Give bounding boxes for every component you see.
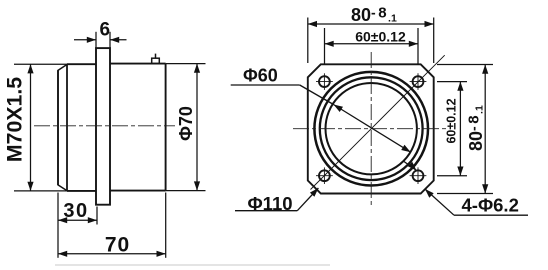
svg-text:70: 70 bbox=[105, 234, 130, 257]
outer circle bbox=[314, 72, 428, 186]
dimension 30 bbox=[58, 193, 97, 258]
centerline left view bbox=[34, 125, 175, 127]
top dimension 80-0.1 bbox=[308, 5, 434, 64]
svg-text:Φ70: Φ70 bbox=[176, 106, 196, 141]
svg-text:6: 6 bbox=[100, 19, 111, 40]
svg-text:80-8.1: 80-8.1 bbox=[466, 105, 487, 151]
svg-text:60±0.12: 60±0.12 bbox=[355, 29, 406, 45]
svg-text:4-Φ6.2: 4-Φ6.2 bbox=[462, 195, 519, 216]
svg-text:60±0.12: 60±0.12 bbox=[445, 98, 459, 143]
bolt hole bottom-right phi6.2 bbox=[410, 167, 427, 184]
middle circle bbox=[320, 77, 423, 180]
dimension phi70 bbox=[166, 64, 206, 191]
left view: threaded bushing side view bbox=[58, 64, 97, 191]
label 4-phi6.2 with leader arrows at bottom-right hole bbox=[404, 162, 528, 216]
key tab on body top bbox=[152, 54, 160, 64]
centerline vertical right view bbox=[370, 52, 372, 206]
square flange outline with chamfered corners bbox=[308, 64, 434, 193]
right dimension 80-0.1 vertical bbox=[437, 65, 493, 194]
bolt hole top-left phi6.2 bbox=[316, 73, 333, 90]
dimension 70 bbox=[58, 193, 166, 258]
centerline horizontal right view bbox=[293, 128, 449, 130]
label phi60 with leader and diameter arrows bbox=[231, 66, 411, 153]
svg-text:M70X1.5: M70X1.5 bbox=[3, 77, 27, 162]
bolt hole bottom-left phi6.2 bbox=[316, 167, 333, 184]
top dimension 60+-0.12 bbox=[325, 28, 419, 64]
svg-text:Φ60: Φ60 bbox=[243, 66, 278, 86]
inner circle phi60 bbox=[326, 83, 417, 174]
dimension M70X1.5 bbox=[3, 64, 68, 191]
label phi110 with leader arrow to corner bbox=[235, 188, 318, 214]
faint scan line bbox=[55, 264, 330, 266]
diagonal centerline BL-TR through bolt holes bbox=[311, 55, 445, 189]
body cylinder phi70 bbox=[110, 64, 166, 191]
bolt hole top-right phi6.2 bbox=[410, 73, 427, 90]
svg-text:Φ110: Φ110 bbox=[248, 193, 293, 214]
flange plate (6 wide) bbox=[96, 48, 110, 205]
svg-text:30: 30 bbox=[63, 200, 88, 222]
right dimension 60+-0.12 vertical bbox=[437, 82, 467, 176]
svg-text:80-8.1: 80-8.1 bbox=[351, 5, 397, 26]
dimension 6 (flange width) bbox=[74, 19, 127, 48]
